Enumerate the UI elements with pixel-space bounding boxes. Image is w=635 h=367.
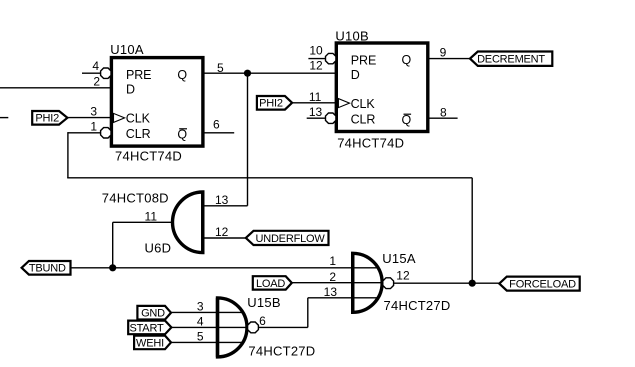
svg-text:74HCT74D: 74HCT74D (115, 148, 182, 163)
net flag START (128, 321, 171, 335)
svg-text:PRE: PRE (126, 68, 151, 82)
svg-text:12: 12 (309, 58, 323, 72)
nor-gate U15B body (197, 295, 316, 359)
svg-text:U10A: U10A (110, 42, 144, 57)
svg-text:11: 11 (145, 209, 158, 223)
svg-text:UNDERFLOW: UNDERFLOW (255, 233, 325, 245)
svg-text:13: 13 (309, 105, 323, 119)
svg-text:74HCT27D: 74HCT27D (384, 298, 451, 313)
svg-text:74HCT74D: 74HCT74D (337, 136, 404, 151)
wire U10B pin8 stub (428, 117, 458, 119)
svg-text:3: 3 (197, 299, 204, 313)
wire WEHI to U15B pin5 (171, 341, 243, 343)
flip-flop U10B body (309, 28, 447, 150)
svg-text:13: 13 (324, 285, 338, 299)
wire Q net vertical to U6D (247, 73, 249, 206)
svg-text:CLR: CLR (126, 127, 151, 141)
svg-text:2: 2 (329, 270, 336, 284)
wire CLR net vertical left (67, 132, 69, 178)
wire U10B pin9 to DECREMENT (428, 58, 471, 60)
svg-text:Q: Q (401, 113, 411, 127)
wire U6D output vertical (112, 222, 114, 267)
net flag PHI2 (U10B) (257, 96, 292, 110)
net flag TBUND (22, 261, 71, 275)
wire CLR net vertical right (471, 178, 473, 283)
wire GND to U15B pin3 (171, 311, 243, 313)
svg-text:CLK: CLK (351, 97, 376, 111)
wire stub at left edge (0, 117, 8, 119)
wire TBUND to U15A pin1 (71, 267, 378, 269)
svg-text:Q: Q (401, 53, 411, 67)
wire LOAD to U15A pin2 (292, 282, 382, 284)
wire U15B output vertical (307, 298, 309, 328)
svg-text:2: 2 (93, 74, 100, 88)
wire U10A.CLR pin1 horizontal (68, 132, 101, 134)
svg-text:Q: Q (177, 68, 187, 82)
wire U15B output horizontal (259, 326, 308, 328)
svg-text:1: 1 (329, 254, 336, 268)
and-gate U6D body (102, 190, 229, 255)
net flag LOAD (253, 276, 292, 290)
svg-text:12: 12 (396, 269, 410, 283)
svg-text:8: 8 (440, 105, 447, 119)
svg-text:U15A: U15A (382, 251, 416, 266)
svg-text:D: D (126, 82, 135, 96)
wire PHI2 to U10B.CLK (292, 102, 336, 104)
wire U10B pin13 stub (307, 117, 326, 119)
nor-gate U15A body (324, 251, 451, 313)
wire U6D output 11 (113, 221, 173, 223)
svg-text:FORCELOAD: FORCELOAD (509, 279, 576, 291)
svg-text:TBUND: TBUND (29, 263, 66, 275)
wire START to U15B pin4 (171, 326, 246, 328)
wire net D input from left edge to U10A.D (0, 87, 111, 89)
svg-text:Q: Q (177, 127, 187, 141)
svg-text:74HCT27D: 74HCT27D (248, 344, 315, 359)
svg-text:U6D: U6D (145, 240, 172, 255)
net flag FORCELOAD (499, 277, 579, 291)
svg-text:GND: GND (141, 308, 165, 320)
junction node Q net (244, 70, 251, 77)
svg-text:10: 10 (309, 44, 323, 58)
svg-text:3: 3 (90, 105, 97, 119)
svg-text:CLK: CLK (126, 112, 151, 126)
junction node FORCELOAD net (469, 280, 476, 287)
svg-text:START: START (129, 322, 164, 334)
net flag PHI2 (left) (32, 111, 67, 125)
svg-text:U10B: U10B (335, 28, 369, 43)
svg-text:11: 11 (309, 90, 322, 104)
svg-text:CLR: CLR (351, 112, 376, 126)
svg-text:1: 1 (90, 120, 97, 134)
wire PHI2 to U10A.CLK (67, 117, 111, 119)
svg-text:4: 4 (92, 59, 99, 73)
svg-text:PRE: PRE (351, 53, 376, 67)
wire U6D input 12 to UNDERFLOW (205, 237, 246, 239)
svg-text:PHI2: PHI2 (35, 113, 59, 125)
wire U15A output to FORCELOAD (394, 282, 500, 284)
svg-text:5: 5 (217, 61, 224, 75)
svg-text:6: 6 (213, 118, 220, 132)
svg-text:LOAD: LOAD (256, 278, 285, 290)
wire CLR net long horizontal (67, 177, 472, 179)
wire stub pin 4 PRE (82, 72, 100, 74)
junction node TBUND net (109, 264, 116, 271)
wire U10A pin6 stub (203, 132, 234, 134)
svg-text:DECREMENT: DECREMENT (477, 54, 545, 66)
wire U15A pin13 horizontal (308, 297, 378, 299)
svg-text:WEHI: WEHI (136, 337, 164, 349)
svg-text:D: D (351, 68, 360, 82)
svg-text:5: 5 (197, 329, 204, 343)
net flag GND (137, 306, 171, 320)
svg-text:4: 4 (197, 314, 204, 328)
svg-text:PHI2: PHI2 (259, 98, 283, 110)
svg-text:6: 6 (259, 314, 266, 328)
net flag WEHI (134, 336, 171, 350)
svg-text:74HCT08D: 74HCT08D (102, 190, 169, 205)
flip-flop U10A body (90, 42, 224, 164)
wire U10A.Q to U10B.D (203, 72, 336, 74)
svg-text:12: 12 (215, 225, 229, 239)
svg-text:13: 13 (215, 193, 229, 207)
svg-text:U15B: U15B (247, 295, 281, 310)
net flag DECREMENT (470, 52, 552, 66)
wire U10B pin10 stub (308, 58, 325, 60)
net flag UNDERFLOW (246, 231, 329, 245)
svg-text:9: 9 (440, 45, 447, 59)
wire U6D input 13 (205, 205, 248, 207)
